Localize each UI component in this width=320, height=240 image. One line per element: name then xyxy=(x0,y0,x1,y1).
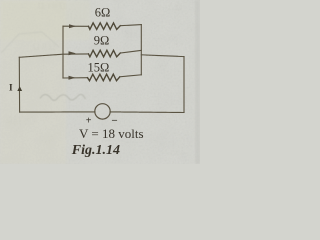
wire left vertical xyxy=(18,57,20,112)
svg-text:Δ Ω: Δ Ω xyxy=(168,2,183,12)
wire right outer bus vertical xyxy=(183,57,185,113)
resistor R1 6 ohm zigzag xyxy=(89,23,121,30)
wire tap from inner bus to outer bus xyxy=(141,55,184,57)
wire branch 1 lead-in xyxy=(63,25,89,27)
ghost diagonal bleed line xyxy=(1,32,59,53)
wire left bus vertical xyxy=(62,26,64,78)
svg-text:I: I xyxy=(9,84,13,94)
wire branch 2 lead-in xyxy=(63,53,89,55)
ghost resistor zigzag xyxy=(40,94,86,100)
paper warm tint top-left xyxy=(0,0,90,40)
paper warm tint left xyxy=(0,0,66,164)
wire branch 3 lead-in xyxy=(63,77,88,79)
resistor R3 15 ohm zigzag xyxy=(88,74,120,81)
svg-text:6Ω: 6Ω xyxy=(95,6,111,20)
wire voltage source to right bus xyxy=(110,111,184,114)
svg-text:9Ω: 9Ω xyxy=(94,33,110,47)
wire bottom left to voltage source xyxy=(20,111,95,113)
svg-text:15Ω: 15Ω xyxy=(88,61,110,75)
svg-text:Ω81 = V: Ω81 = V xyxy=(6,115,38,125)
wire branch 1 lead-out xyxy=(120,25,141,26)
wire branch 2 lead-out xyxy=(120,50,141,53)
svg-text:∼∼∼: ∼∼∼ xyxy=(166,149,186,158)
svg-text:Ω ℩ = Ω: Ω ℩ = Ω xyxy=(38,1,67,11)
wire inner right bus vertical xyxy=(140,25,142,75)
svg-text:Ω 8 Ω: Ω 8 Ω xyxy=(33,42,56,52)
current arrow I upward on left wire xyxy=(17,86,22,91)
paper background xyxy=(0,0,200,164)
svg-text:–: – xyxy=(111,115,118,126)
wire node A horizontal to left bus xyxy=(19,54,63,57)
svg-text:+: + xyxy=(86,116,92,127)
paper grain xyxy=(0,0,200,164)
current arrow branch 2 xyxy=(69,51,76,55)
paper cloud mottling xyxy=(0,0,200,164)
current arrow branch 3 xyxy=(69,76,76,80)
page edge shade right xyxy=(195,0,200,164)
svg-text:V = 18 volts: V = 18 volts xyxy=(79,126,144,141)
resistor R2 9 ohm zigzag xyxy=(89,50,121,57)
ghost bleed-through marks xyxy=(1,1,186,158)
svg-text:Fig.1.14: Fig.1.14 xyxy=(71,143,120,158)
current arrow branch 1 xyxy=(69,24,76,28)
voltage source V circle xyxy=(95,104,110,119)
wire branch 3 lead-out xyxy=(120,75,142,77)
